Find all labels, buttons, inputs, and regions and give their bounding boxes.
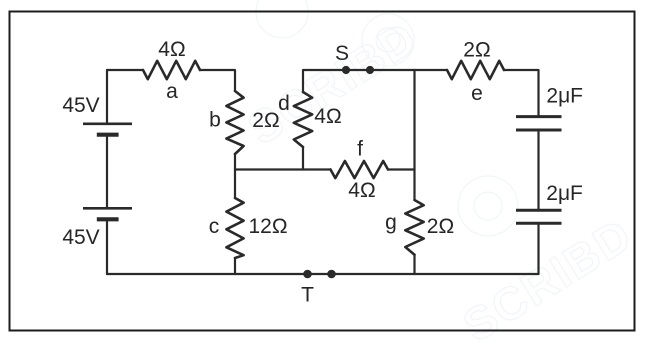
right rail cap2 to bottom <box>537 225 539 274</box>
capacitor C2 top plate <box>516 209 562 212</box>
wire resistor a to node b-top <box>200 70 235 91</box>
wire d-bottom to middle wire <box>302 147 304 170</box>
svg-text:45V: 45V <box>62 94 99 117</box>
watermark logo ring lower <box>458 176 518 236</box>
watermark text upper <box>239 0 641 345</box>
svg-text:4Ω: 4Ω <box>348 179 375 202</box>
middle wire b to f <box>235 168 331 170</box>
wire between S dots <box>346 69 370 71</box>
svg-text:T: T <box>301 283 314 306</box>
svg-text:SCRIBD: SCRIBD <box>239 11 426 155</box>
svg-text:4Ω: 4Ω <box>314 105 341 128</box>
svg-text:a: a <box>166 80 178 103</box>
svg-text:45V: 45V <box>62 226 99 249</box>
svg-text:2Ω: 2Ω <box>463 39 490 62</box>
svg-text:4Ω: 4Ω <box>158 38 185 61</box>
svg-text:SCRIBD: SCRIBD <box>454 208 641 345</box>
svg-text:b: b <box>209 109 221 132</box>
svg-text:2μF: 2μF <box>546 182 583 205</box>
svg-text:S: S <box>335 42 349 65</box>
svg-text:f: f <box>357 138 363 161</box>
wire b-bottom to middle node <box>234 154 236 170</box>
wire f to mid column <box>388 168 415 170</box>
wire top left to resistor a <box>107 69 143 71</box>
svg-text:d: d <box>278 92 290 115</box>
watermark logo ring upper <box>362 14 414 66</box>
wire g-bottom to bottom wire <box>413 255 415 274</box>
resistor R-e 2ohm <box>447 61 504 79</box>
resistor R-f 4ohm <box>331 161 389 178</box>
bottom wire <box>107 273 539 275</box>
svg-text:12Ω: 12Ω <box>248 215 287 238</box>
battery B1 short plate <box>97 133 119 137</box>
battery B2 short plate <box>97 217 119 221</box>
mid column S to middle wire <box>413 70 415 170</box>
watermark partial ring top <box>256 0 308 38</box>
capacitor C2 bottom plate <box>516 222 562 225</box>
battery B1 long plate <box>83 123 132 126</box>
resistor R-b 2ohm <box>226 91 243 154</box>
svg-text:c: c <box>209 215 220 238</box>
wire left rail top <box>106 70 108 123</box>
svg-text:2Ω: 2Ω <box>427 215 454 238</box>
wire between batteries <box>106 137 108 207</box>
wire e to right rail <box>504 70 539 115</box>
svg-text:2μF: 2μF <box>546 85 583 108</box>
node T dot 2 <box>327 270 336 279</box>
capacitor C1 top plate <box>516 115 562 118</box>
node S dot 1 <box>342 66 350 74</box>
node S dot 2 <box>366 66 374 74</box>
wire middle to g-top <box>413 170 415 201</box>
svg-text:g: g <box>385 211 397 234</box>
svg-text:2Ω: 2Ω <box>252 109 279 132</box>
wire left rail bottom <box>106 221 108 274</box>
wire d-top corner <box>303 70 346 92</box>
wire top to resistor e <box>415 69 448 71</box>
svg-text:e: e <box>471 82 483 105</box>
wire middle node to c-top <box>234 170 236 199</box>
resistor R-d 4ohm <box>294 92 312 147</box>
capacitor C1 bottom plate <box>516 129 562 132</box>
resistor R-a 4ohm <box>143 61 200 79</box>
right rail cap1 to cap2 <box>537 132 539 209</box>
resistor R-c 12ohm <box>226 198 243 258</box>
battery B2 long plate <box>83 207 132 210</box>
resistor R-g 2ohm <box>405 200 423 255</box>
wire S to mid column <box>370 69 415 71</box>
wire c-bottom to bottom wire <box>234 258 236 274</box>
node T dot 1 <box>303 270 312 279</box>
